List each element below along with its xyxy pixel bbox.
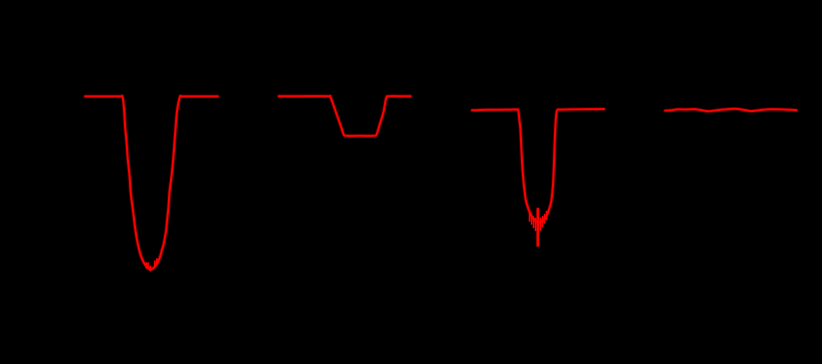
light curve 1 (deep rounded transit dip, panel 1) <box>85 96 218 269</box>
noise ticks at bottom of curve 3 <box>530 212 547 231</box>
light curve 3 (narrow deep transit dip, panel 3) <box>472 109 604 223</box>
soft glow layer under the curves <box>85 96 796 269</box>
light curve 4 (flat wavy out-of-transit line, panel 4) <box>665 109 796 112</box>
central error bar at bottom of curve 3 <box>537 209 539 246</box>
error ticks at bottom of curve 1 <box>146 259 157 271</box>
light curve 2 (shallow trapezoid transit dip, panel 2) <box>279 96 411 136</box>
